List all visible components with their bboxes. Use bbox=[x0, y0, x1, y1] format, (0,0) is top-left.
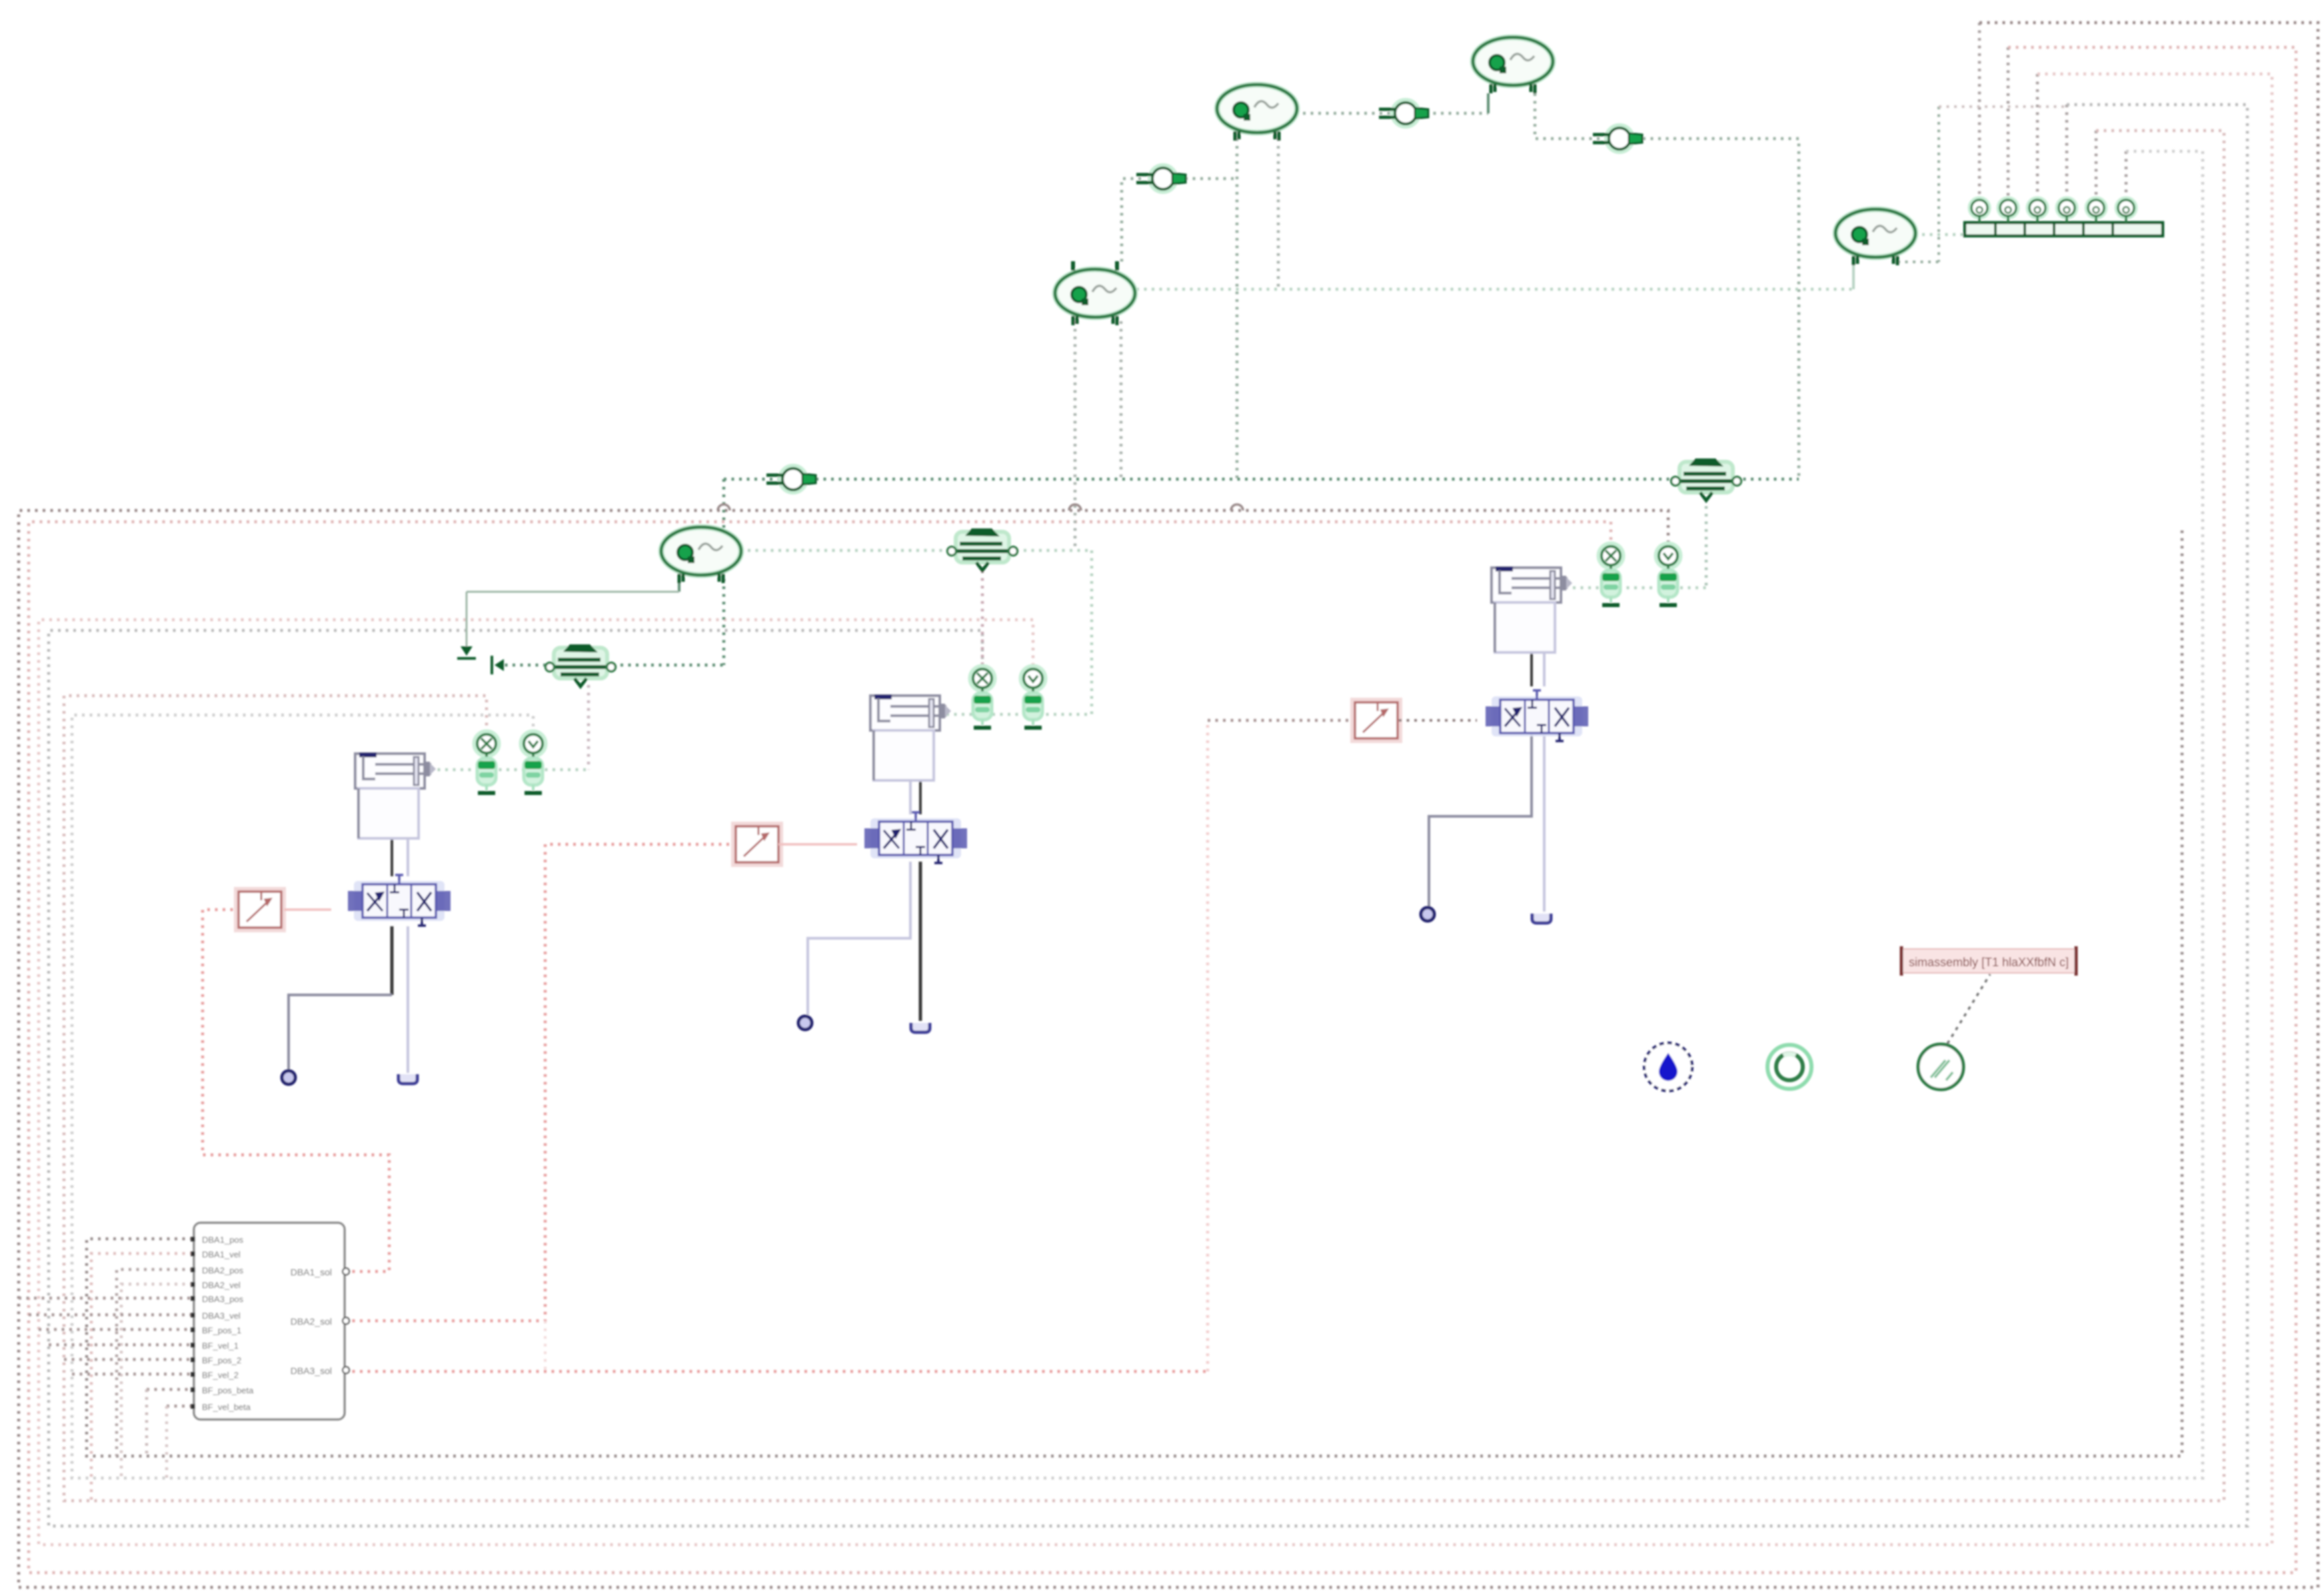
wire RV1 exhaust to arrow bbox=[497, 664, 557, 667]
svg-text:BF_vel_2: BF_vel_2 bbox=[202, 1370, 239, 1380]
wire manifold riser x2909 bbox=[1937, 107, 1940, 262]
wire RV2 drain down to cylinder3 line bbox=[1705, 498, 1708, 588]
cylinder C1 bbox=[355, 754, 436, 838]
check valve CV4 bbox=[766, 466, 816, 492]
directional valve V3 bbox=[1486, 690, 1588, 741]
manifold sensor circle 4 bbox=[2057, 198, 2077, 223]
wire supply line y826 from P4 through filter F1 bbox=[748, 549, 1092, 552]
wire block input stub 2 bbox=[29, 1313, 193, 1317]
wire bus loop L3 manifold drop bbox=[2036, 74, 2039, 200]
wire block input stub 4 bbox=[49, 1343, 193, 1347]
tank/vent T2 bbox=[911, 1023, 930, 1032]
wire bus loop L4 manifold drop bbox=[2065, 105, 2069, 200]
svg-text:DBA2_pos: DBA2_pos bbox=[202, 1265, 244, 1275]
wire RV1 right port to riser x1086 bbox=[605, 664, 724, 667]
pump P2 bbox=[1217, 85, 1297, 141]
svg-text:BF_vel_1: BF_vel_1 bbox=[202, 1341, 239, 1351]
filter/relief RV2 bbox=[1672, 458, 1742, 500]
svg-text:DBA3_pos: DBA3_pos bbox=[202, 1294, 244, 1304]
annotation label box bbox=[1901, 946, 2076, 976]
filter/relief F1 bbox=[948, 528, 1018, 570]
wire bus M3 bbox=[117, 1269, 193, 1456]
manifold sensor circle 6 bbox=[2116, 198, 2136, 223]
wire P2 to check valve CV1 to P1 left leg bbox=[1303, 112, 1488, 115]
wire bus loop L6 manifold drop bbox=[2125, 151, 2128, 200]
wire bus M2 bbox=[91, 1253, 193, 1501]
pilot valve A2R bbox=[1021, 666, 1045, 728]
wire P4 left leg exhaust bbox=[678, 572, 680, 592]
zero source node N3 bbox=[1421, 908, 1434, 921]
check valve CV2 bbox=[1593, 126, 1642, 151]
wire R1 to V1 bbox=[284, 908, 331, 911]
junction hop x1613/y766 bbox=[1069, 504, 1081, 510]
pilot valve A3R bbox=[1656, 544, 1680, 605]
exhaust arrow RV1 bbox=[495, 659, 504, 671]
wire P2 right leg down to supply header bbox=[1277, 131, 1280, 291]
wire pin stub vertical v220 bbox=[145, 1389, 149, 1456]
wire bus loop L2 manifold drop bbox=[2007, 47, 2010, 200]
manifold sensor circle 2 bbox=[1998, 198, 2018, 223]
pump P6 bbox=[1835, 209, 1915, 265]
pilot valve A3L bbox=[1599, 544, 1623, 605]
svg-text:BF_pos_1: BF_pos_1 bbox=[202, 1325, 241, 1335]
wire bus loop L6 (manifold sensor 6 to pilot valve) bbox=[72, 151, 2203, 1478]
wire R3 to V3 bbox=[1399, 719, 1477, 722]
pilot valve A1L bbox=[475, 732, 499, 793]
manifold sensor circle 1 bbox=[1969, 198, 1989, 223]
wire bus loop L1 manifold drop bbox=[1978, 23, 1981, 200]
wire P6 right leg to manifold riser bbox=[1896, 260, 1899, 263]
wire faint riser continuation x818 bbox=[544, 1321, 547, 1371]
tank/vent T3 bbox=[1532, 914, 1551, 923]
zero source node N2 bbox=[798, 1016, 812, 1030]
svg-text:DBA1_pos: DBA1_pos bbox=[202, 1235, 244, 1245]
wire P6 right port to manifold bbox=[1922, 233, 1963, 237]
manifold sensor circle 3 bbox=[2027, 198, 2047, 223]
svg-text:BF_pos_beta: BF_pos_beta bbox=[202, 1385, 254, 1395]
cylinder C3 bbox=[1492, 568, 1572, 652]
wire block input stub 6 bbox=[72, 1373, 193, 1376]
wire RV1 bottom drop to cylinder1 line bbox=[587, 685, 590, 770]
svg-text:DBA3_sol: DBA3_sol bbox=[291, 1365, 332, 1376]
gauge blue drop bbox=[1644, 1043, 1692, 1091]
wire block input stub 1 bbox=[19, 1297, 193, 1300]
directional valve V2 bbox=[864, 812, 967, 863]
wire bus M4 bbox=[121, 1284, 193, 1478]
wire P1 right leg to CV2 and down right main riser bbox=[1535, 93, 1799, 479]
manifold block with 6 gauge ports bbox=[1965, 222, 2163, 237]
assembly 2 lines from chamber to valve and below bbox=[919, 778, 922, 814]
tank/vent T1 bbox=[399, 1074, 417, 1084]
wire block input stub 8 bbox=[167, 1405, 193, 1408]
exhaust arrow under P4 line bbox=[461, 646, 473, 656]
svg-text:BF_pos_2: BF_pos_2 bbox=[202, 1355, 241, 1365]
svg-text:DBA3_vel: DBA3_vel bbox=[202, 1311, 241, 1321]
wire R2 to V2 bbox=[778, 843, 857, 846]
wire pin stub vertical v250 bbox=[165, 1406, 169, 1478]
wire CV3 right to P2 left leg riser bbox=[1185, 177, 1237, 181]
wire bus loop L5 (manifold sensor 5 to pilot valve) bbox=[64, 131, 2224, 1501]
wire block input stub 3 bbox=[39, 1328, 193, 1331]
wire P3 bottom legs down bbox=[1074, 321, 1077, 550]
wire CV3 left to P3 top ear bbox=[1122, 179, 1141, 265]
svg-text:DBA2_vel: DBA2_vel bbox=[202, 1280, 241, 1290]
zero source node N1 bbox=[282, 1071, 295, 1084]
wire pump header y434 from P3 right port to P6 left leg bbox=[1136, 288, 1853, 291]
svg-text:DBA1_vel: DBA1_vel bbox=[202, 1249, 241, 1259]
check valve CV1 bbox=[1379, 101, 1428, 126]
wire riser x1086 down to relief RV1 bbox=[722, 479, 726, 665]
gauge green ring bbox=[1767, 1045, 1811, 1089]
assembly 3 lines from chamber to valve and below bbox=[1530, 650, 1533, 686]
junction hop x1086/y766 bbox=[718, 504, 730, 510]
directional valve V1 bbox=[348, 875, 451, 926]
wire cylinder3 rod line y882 bbox=[1573, 586, 1706, 590]
wire bus loop L5 manifold drop bbox=[2095, 131, 2098, 200]
cylinder C2 bbox=[870, 696, 951, 780]
wire bus M1 bbox=[87, 528, 2182, 1456]
controller block bbox=[191, 1223, 349, 1419]
wire controller output 3 to solenoid R3 bbox=[345, 1370, 1208, 1373]
svg-text:DBA1_sol: DBA1_sol bbox=[291, 1267, 332, 1277]
pump P4 bbox=[661, 527, 741, 583]
proportional solenoid R2 bbox=[733, 824, 781, 865]
pump P3 bbox=[1055, 261, 1135, 325]
wire P2 left leg down to CV3 level bbox=[1236, 131, 1239, 479]
svg-text:simassembly [T1 hlaXXfbfN c]: simassembly [T1 hlaXXfbfN c] bbox=[1909, 956, 2069, 969]
gauge green meter bbox=[1918, 1044, 1963, 1090]
wire controller output 2 to solenoid R2 bbox=[345, 844, 736, 1321]
assembly 1 lines from chamber to valve and below bbox=[391, 838, 393, 876]
wire cylinder1 rod line y1155 bbox=[430, 768, 588, 772]
proportional solenoid R1 bbox=[236, 889, 284, 930]
pilot valve A1R bbox=[521, 732, 545, 793]
pilot valve A2L bbox=[970, 666, 994, 728]
junction hop x1856/y766 bbox=[1231, 504, 1243, 510]
check valve CV3 bbox=[1136, 166, 1186, 191]
wire filter F1 drain to A2 left pilot valve bbox=[981, 570, 984, 669]
svg-text:DBA2_sol: DBA2_sol bbox=[291, 1316, 332, 1327]
annotation dashed leader bbox=[1947, 974, 1990, 1044]
wire main line y719 (CV4 to relief RV2 to right riser) bbox=[724, 478, 1799, 481]
wire block input stub 5 bbox=[64, 1358, 193, 1361]
manifold sensor circle 5 bbox=[2086, 198, 2106, 223]
wire controller output 1 to solenoid R1 bbox=[203, 910, 389, 1271]
wire supply drop to cylinder 2 line bbox=[934, 550, 1092, 714]
proportional solenoid R3 bbox=[1352, 700, 1400, 741]
svg-text:BF_vel_beta: BF_vel_beta bbox=[202, 1402, 251, 1412]
pump P1 bbox=[1473, 37, 1553, 93]
filter/relief RV1 bbox=[546, 644, 616, 686]
wire block input stub 7 bbox=[147, 1388, 193, 1391]
